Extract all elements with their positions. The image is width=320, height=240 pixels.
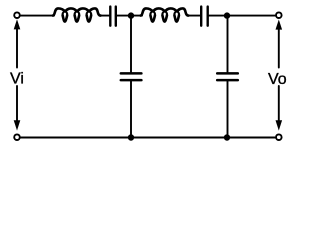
- node A: [128, 12, 134, 18]
- terminal input top: [14, 12, 20, 18]
- wire bottom rail: [21, 137, 275, 139]
- Vi arrowhead down: [14, 120, 21, 130]
- Vi arrow shaft lower: [16, 86, 18, 121]
- node B: [224, 12, 230, 18]
- wire node A to L2: [131, 15, 142, 17]
- wire C1 to node A: [117, 15, 131, 17]
- capacitor C4: [217, 73, 238, 80]
- capacitor C1: [110, 7, 116, 26]
- capacitor C3: [121, 73, 142, 80]
- wire shunt branch 1 upper: [130, 16, 132, 72]
- Vo arrow shaft upper: [278, 29, 280, 68]
- terminal input bottom: [14, 134, 20, 140]
- wire node B to output terminal: [227, 15, 275, 17]
- wire shunt branch 1 lower: [130, 81, 132, 138]
- Vi arrowhead up: [14, 19, 21, 29]
- wire shunt branch 2 lower: [227, 81, 229, 138]
- Vo arrowhead up: [276, 20, 283, 30]
- wire top rail left segment: [21, 15, 54, 17]
- inductor L1: [53, 8, 101, 21]
- wire C2 to node B: [209, 15, 227, 17]
- svg-text:Vi: Vi: [10, 70, 24, 87]
- terminal output bottom: [276, 134, 282, 140]
- wire L2 to C2: [188, 15, 200, 17]
- Vo arrow shaft lower: [278, 86, 280, 121]
- Vo arrowhead down: [276, 120, 283, 130]
- terminal output top: [276, 12, 282, 18]
- junction dot bottom 2: [224, 134, 230, 140]
- Vi arrow shaft upper: [16, 29, 18, 68]
- svg-text:Vo: Vo: [268, 71, 287, 88]
- capacitor C2: [201, 7, 208, 26]
- inductor L2: [141, 8, 189, 21]
- junction dot bottom 1: [128, 134, 134, 140]
- wire shunt branch 2 upper: [227, 16, 229, 72]
- wire L1 to C1: [100, 15, 109, 17]
